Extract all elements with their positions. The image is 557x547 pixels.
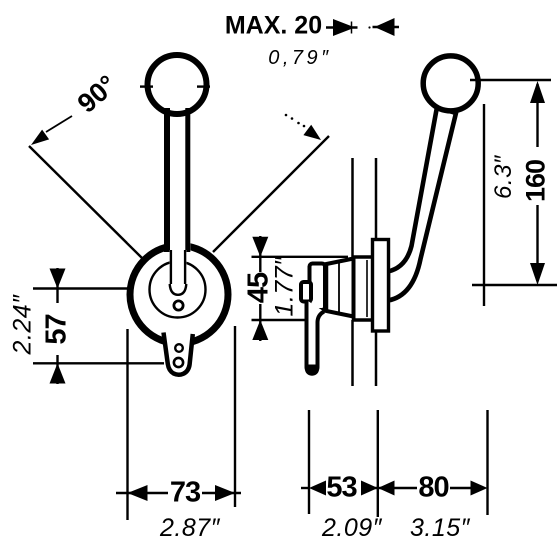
svg-text:57: 57 [41, 314, 73, 344]
svg-text:1.77″: 1.77″ [271, 256, 299, 317]
svg-text:6.3″: 6.3″ [490, 154, 517, 199]
svg-text:2.09″: 2.09″ [321, 514, 383, 542]
svg-text:2.24″: 2.24″ [9, 294, 37, 356]
svg-text:2.87″: 2.87″ [159, 514, 221, 542]
svg-text:53: 53 [326, 472, 357, 504]
svg-text:160: 160 [521, 160, 551, 202]
svg-text:73: 73 [170, 477, 201, 509]
svg-text:0,79″: 0,79″ [268, 47, 332, 69]
svg-text:MAX. 20: MAX. 20 [225, 12, 322, 40]
svg-text:3.15″: 3.15″ [410, 514, 471, 542]
svg-text:80: 80 [418, 472, 448, 504]
